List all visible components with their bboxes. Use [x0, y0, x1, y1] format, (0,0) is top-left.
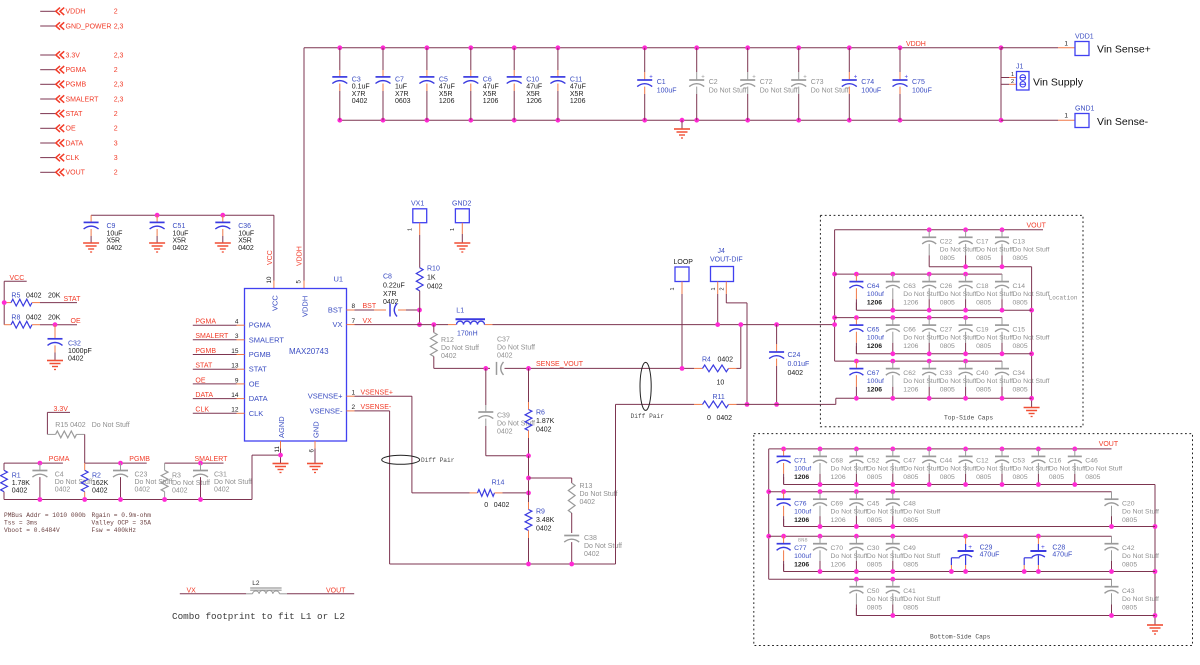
capacitor C44	[922, 447, 977, 487]
svg-text:0402: 0402	[494, 502, 510, 509]
wire GND right bus bottom block	[1153, 485, 1158, 626]
svg-text:C76: C76	[794, 501, 807, 508]
svg-text:47uF: 47uF	[570, 84, 586, 91]
svg-text:STAT: STAT	[66, 111, 84, 118]
svg-text:1: 1	[1064, 40, 1068, 47]
svg-text:Do Not Stuff: Do Not Stuff	[903, 596, 940, 603]
svg-text:1.78K: 1.78K	[12, 480, 31, 487]
ground AGND	[273, 464, 289, 473]
svg-text:Vin Sense+: Vin Sense+	[1097, 44, 1151, 56]
node VCC-R5 junction	[2, 300, 7, 305]
svg-text:0402: 0402	[536, 526, 552, 533]
capacitor C62	[886, 359, 941, 401]
svg-text:0805: 0805	[903, 517, 918, 524]
svg-text:C30: C30	[867, 545, 880, 552]
svg-text:8: 8	[352, 303, 356, 310]
diff pair ellipse right	[631, 362, 665, 420]
svg-text:1uF: 1uF	[395, 84, 407, 91]
svg-text:Combo footprint to fit L1 or L: Combo footprint to fit L1 or L2	[172, 611, 345, 622]
wire U1 pin 12 CLK	[193, 407, 245, 414]
svg-text:C73: C73	[811, 79, 824, 86]
svg-text:C20: C20	[1122, 501, 1135, 508]
svg-text:100uf: 100uf	[794, 553, 811, 560]
svg-text:0: 0	[484, 502, 488, 509]
svg-text:0805: 0805	[940, 474, 955, 481]
svg-text:0402: 0402	[718, 357, 734, 364]
svg-text:C37: C37	[497, 337, 510, 344]
svg-text:Do Not Stuff: Do Not Stuff	[903, 334, 940, 341]
off-page connector OE	[40, 125, 118, 133]
svg-text:C13: C13	[1013, 239, 1026, 246]
connector J1 Vin Supply	[1001, 64, 1084, 91]
wire R13 tap	[526, 456, 572, 493]
capacitor C75	[893, 45, 932, 122]
wire VDDH bottom rail	[338, 119, 1001, 121]
svg-text:1: 1	[352, 389, 356, 396]
svg-text:1206: 1206	[439, 98, 455, 105]
capacitor C51	[150, 213, 189, 252]
node Vin+ junction	[999, 45, 1004, 50]
svg-text:C49: C49	[903, 545, 916, 552]
svg-text:PMBus Addr = 1010 000b: PMBus Addr = 1010 000b	[4, 512, 86, 519]
svg-text:Location: Location	[1049, 295, 1078, 302]
svg-text:C6: C6	[483, 77, 492, 84]
svg-text:VSENSE-: VSENSE-	[310, 406, 343, 415]
svg-text:PGMB: PGMB	[195, 348, 216, 355]
resistor R1	[1, 463, 31, 499]
svg-text:0805: 0805	[867, 605, 882, 612]
svg-text:C19: C19	[976, 326, 989, 333]
ground GND pin	[307, 464, 323, 473]
svg-text:OE: OE	[66, 126, 76, 133]
svg-text:GND1: GND1	[1075, 106, 1095, 113]
capacitor C63	[886, 272, 941, 313]
wire VSENSE+	[347, 389, 412, 493]
wire row4 rails top block	[835, 361, 1032, 404]
capacitor C71	[777, 447, 812, 485]
svg-text:Do Not Stuff: Do Not Stuff	[940, 334, 977, 341]
svg-text:C69: C69	[831, 501, 844, 508]
svg-text:Diff Pair: Diff Pair	[631, 413, 665, 420]
wire VOUT-DIF minus	[616, 403, 836, 405]
net label VX L2	[187, 587, 197, 594]
svg-text:+: +	[968, 544, 972, 551]
svg-text:0805: 0805	[1049, 474, 1064, 481]
svg-text:VDD1: VDD1	[1075, 34, 1094, 41]
wire AGND pin 11	[274, 441, 283, 464]
ground GND2	[454, 243, 470, 252]
ground VDDH rail	[674, 118, 690, 138]
svg-text:0805: 0805	[1013, 343, 1028, 350]
svg-text:+: +	[1041, 544, 1045, 551]
svg-text:C16: C16	[1049, 458, 1062, 465]
annotation Top-Side Caps	[944, 415, 993, 422]
wire row1 rails top block	[835, 230, 1043, 267]
svg-text:15: 15	[231, 348, 239, 355]
svg-text:C17: C17	[976, 239, 989, 246]
svg-text:VCC: VCC	[271, 295, 280, 311]
svg-text:0805: 0805	[1013, 386, 1028, 393]
svg-text:PGMB: PGMB	[129, 456, 150, 463]
wire C39-R6 bottoms	[486, 453, 531, 458]
svg-text:GND_POWER: GND_POWER	[66, 23, 112, 30]
svg-text:Do Not Stuff: Do Not Stuff	[976, 466, 1013, 473]
svg-text:PGMA: PGMA	[49, 456, 70, 463]
svg-text:0805: 0805	[940, 299, 955, 306]
svg-text:0402: 0402	[68, 356, 84, 363]
svg-text:10uF: 10uF	[107, 230, 123, 237]
capacitor C27	[922, 315, 977, 356]
off-page connector VOUT	[40, 169, 118, 177]
svg-text:Do Not Stuff: Do Not Stuff	[940, 466, 977, 473]
svg-text:C8: C8	[383, 274, 392, 281]
svg-text:Fsw = 400kHz: Fsw = 400kHz	[92, 527, 137, 534]
svg-text:R4: R4	[702, 357, 711, 364]
capacitor C46	[1068, 447, 1123, 487]
svg-text:C50: C50	[867, 588, 880, 595]
resistor R9	[525, 493, 555, 564]
svg-text:C36: C36	[238, 223, 251, 230]
capacitor C70	[813, 534, 868, 574]
svg-text:C44: C44	[940, 458, 953, 465]
capacitor C48	[886, 489, 941, 529]
svg-text:X7R: X7R	[383, 291, 397, 298]
svg-text:Do Not Stuff: Do Not Stuff	[1013, 247, 1050, 254]
capacitor C9	[84, 215, 123, 252]
wire VDDH feed to U1 pin5	[296, 48, 305, 289]
svg-text:Do Not Stuff: Do Not Stuff	[940, 291, 977, 298]
capacitor C20	[1105, 492, 1160, 529]
svg-text:Do Not Stuff: Do Not Stuff	[976, 247, 1013, 254]
svg-text:Do Not Stuff: Do Not Stuff	[760, 88, 798, 95]
svg-text:0805: 0805	[1085, 474, 1100, 481]
svg-text:Do Not Stuff: Do Not Stuff	[903, 466, 940, 473]
wire VX	[347, 318, 449, 325]
svg-text:C32: C32	[68, 341, 81, 348]
svg-text:1206: 1206	[831, 562, 846, 569]
svg-text:C63: C63	[903, 283, 916, 290]
svg-text:0805: 0805	[1122, 562, 1137, 569]
svg-text:PGMA: PGMA	[195, 319, 216, 326]
svg-text:SENSE_VOUT: SENSE_VOUT	[536, 361, 584, 368]
svg-text:Vin Sense-: Vin Sense-	[1097, 116, 1149, 128]
svg-text:CLK: CLK	[195, 407, 209, 414]
svg-text:C70: C70	[831, 545, 844, 552]
svg-text:2: 2	[114, 9, 118, 16]
off-page connector DATA	[40, 139, 118, 147]
svg-text:J4: J4	[718, 248, 726, 255]
svg-text:2: 2	[114, 126, 118, 133]
svg-text:R6: R6	[536, 410, 545, 417]
svg-text:0402: 0402	[352, 98, 368, 105]
wire VSENSE-	[347, 404, 392, 564]
svg-text:C34: C34	[1013, 370, 1026, 377]
resistor R8	[4, 315, 77, 329]
svg-text:1: 1	[670, 287, 676, 290]
svg-text:0402: 0402	[536, 427, 552, 434]
svg-text:Diff Pair: Diff Pair	[421, 457, 455, 464]
svg-text:VOUT: VOUT	[1099, 441, 1119, 448]
svg-text:R13: R13	[580, 483, 593, 490]
svg-text:1000pF: 1000pF	[68, 348, 92, 355]
svg-text:C4: C4	[55, 472, 64, 479]
svg-text:AGND: AGND	[277, 416, 286, 438]
svg-text:1: 1	[450, 228, 456, 231]
svg-text:GND2: GND2	[452, 201, 472, 208]
svg-text:47uF: 47uF	[483, 84, 499, 91]
testpoint GND2	[450, 201, 472, 244]
wire VDDH top rail	[304, 47, 1001, 49]
capacitor C17	[959, 227, 1014, 269]
resistor R14	[412, 480, 531, 510]
connector J4 VOUT-DIF	[710, 248, 743, 291]
svg-text:1206: 1206	[483, 98, 499, 105]
svg-text:X7R: X7R	[352, 91, 366, 98]
svg-text:0402: 0402	[441, 353, 457, 360]
wire L2 left	[180, 593, 253, 595]
svg-text:100uf: 100uf	[867, 291, 884, 298]
svg-text:VSENSE-: VSENSE-	[361, 404, 392, 411]
svg-text:C42: C42	[1122, 545, 1135, 552]
svg-text:VX: VX	[187, 587, 197, 594]
svg-text:0805: 0805	[867, 474, 882, 481]
capacitor C73	[791, 45, 849, 122]
svg-text:X5R: X5R	[526, 91, 540, 98]
ground top block	[1024, 408, 1040, 417]
capacitor C30	[849, 534, 904, 574]
svg-text:0805: 0805	[903, 474, 918, 481]
svg-text:1206: 1206	[867, 343, 882, 350]
svg-text:5: 5	[296, 280, 303, 284]
svg-text:0402: 0402	[717, 415, 733, 422]
testpoint VX1	[408, 201, 427, 268]
net label VOUT bottom block	[1099, 441, 1119, 448]
capacitor C7	[376, 45, 411, 122]
capacitor C31	[193, 461, 252, 500]
capacitor C41	[886, 577, 941, 618]
svg-text:Do Not Stuff: Do Not Stuff	[940, 378, 977, 385]
wire row2 rails bottom block	[769, 492, 1155, 527]
svg-text:Vin Supply: Vin Supply	[1033, 77, 1084, 89]
svg-text:BST: BST	[363, 303, 377, 310]
resistor R6	[525, 368, 555, 455]
svg-text:SMALERT: SMALERT	[195, 333, 229, 340]
svg-text:470uF: 470uF	[980, 552, 1000, 559]
wire sense return bottom	[390, 404, 616, 566]
svg-text:0805: 0805	[976, 255, 991, 262]
svg-text:Vboot = 0.6484V: Vboot = 0.6484V	[4, 527, 60, 534]
svg-text:0402: 0402	[214, 487, 230, 494]
svg-text:10: 10	[717, 380, 725, 387]
svg-text:X5R: X5R	[173, 238, 187, 245]
svg-text:Do Not Stuff: Do Not Stuff	[1013, 378, 1050, 385]
capacitor C23	[113, 461, 173, 500]
svg-text:1206: 1206	[903, 343, 918, 350]
svg-text:C1: C1	[657, 79, 666, 86]
net label OE	[71, 318, 81, 325]
inductor L2	[250, 580, 281, 594]
svg-text:2,3: 2,3	[114, 52, 124, 59]
svg-text:C40: C40	[976, 370, 989, 377]
svg-text:3: 3	[114, 140, 118, 147]
svg-text:10uF: 10uF	[173, 230, 189, 237]
wire U1 pin 13 STAT	[193, 363, 245, 370]
node R6 top	[526, 366, 531, 371]
capacitor C53	[995, 447, 1050, 487]
svg-text:0402: 0402	[788, 370, 804, 377]
svg-text:DATA: DATA	[249, 394, 268, 403]
svg-text:0805: 0805	[940, 255, 955, 262]
net label VDDH	[906, 41, 926, 48]
wire to VDD1	[1001, 40, 1075, 48]
capacitor C50	[849, 577, 904, 616]
svg-text:Do Not Stuff: Do Not Stuff	[811, 88, 849, 95]
svg-text:10: 10	[266, 276, 273, 283]
svg-text:0402: 0402	[12, 488, 28, 495]
off-page connector VDDH	[40, 8, 118, 16]
svg-text:2: 2	[352, 404, 356, 411]
resistor R11	[694, 394, 737, 422]
off-page connector CLK	[40, 154, 118, 162]
node BST-VX1 junction	[417, 308, 422, 327]
svg-text:C26: C26	[940, 283, 953, 290]
svg-text:Do Not Stuff: Do Not Stuff	[867, 596, 904, 603]
svg-text:LOOP: LOOP	[674, 259, 694, 266]
svg-text:VX: VX	[332, 320, 342, 329]
svg-text:C51: C51	[173, 223, 186, 230]
capacitor C40	[959, 359, 1014, 401]
svg-text:VOUT: VOUT	[326, 587, 346, 594]
wire SMALERT segment	[165, 462, 224, 464]
wire VCC feed to U1 pin10	[266, 215, 274, 288]
svg-text:1206: 1206	[903, 299, 918, 306]
svg-text:1206: 1206	[526, 98, 542, 105]
svg-text:1: 1	[711, 287, 717, 290]
svg-text:STAT: STAT	[195, 363, 213, 370]
net label PGMA	[49, 456, 70, 463]
svg-text:1206: 1206	[794, 562, 809, 569]
svg-text:0805: 0805	[1013, 255, 1028, 262]
ground C51	[149, 243, 165, 252]
svg-text:13: 13	[231, 363, 239, 370]
capacitor C11	[550, 45, 585, 122]
inductor L1	[448, 308, 493, 338]
svg-text:1K: 1K	[427, 275, 436, 282]
svg-text:1: 1	[1011, 72, 1014, 78]
svg-text:Bottom-Side Caps: Bottom-Side Caps	[930, 634, 991, 641]
svg-text:C3: C3	[352, 77, 361, 84]
svg-text:C41: C41	[903, 588, 916, 595]
ground C32	[47, 361, 63, 370]
net label 3.3V	[47, 406, 70, 413]
svg-text:Do Not Stuff: Do Not Stuff	[867, 553, 904, 560]
svg-text:VX: VX	[363, 318, 373, 325]
svg-text:VOUT: VOUT	[66, 170, 86, 177]
net label VOUT top block	[1027, 223, 1047, 230]
svg-text:11: 11	[274, 446, 281, 453]
svg-text:C74: C74	[861, 79, 874, 86]
capacitor C68	[813, 447, 868, 487]
wire SENSE_VOUT left	[434, 367, 490, 369]
annotation PMBus settings	[4, 512, 151, 534]
capacitor C28	[1022, 534, 1072, 574]
svg-text:0402: 0402	[172, 488, 188, 495]
svg-text:VSENSE+: VSENSE+	[308, 392, 343, 401]
svg-text:1206: 1206	[570, 98, 586, 105]
svg-text:C7: C7	[395, 77, 404, 84]
wire VOUT line	[493, 324, 835, 326]
wire U1 pin 9 OE	[193, 377, 245, 384]
wire U1 pin 4 PGMA	[193, 319, 245, 326]
annotation Bottom-Side Caps	[930, 634, 991, 641]
wire U1 pin 14 DATA	[193, 392, 245, 399]
diff pair ellipse left	[382, 455, 455, 464]
off-page connector PGMB	[40, 81, 123, 89]
svg-text:R1: R1	[12, 473, 21, 480]
svg-text:C45: C45	[867, 501, 880, 508]
annotation Location	[1049, 295, 1078, 302]
testpoint GND1 Vin Sense-	[1075, 106, 1149, 129]
svg-text:C72: C72	[760, 79, 773, 86]
svg-text:C43: C43	[1122, 588, 1135, 595]
svg-text:C39: C39	[497, 413, 510, 420]
svg-text:C31: C31	[214, 472, 227, 479]
capacitor C14	[995, 274, 1050, 313]
wire SENSE_VOUT	[505, 367, 695, 369]
svg-text:C38: C38	[584, 535, 597, 542]
capacitor C6	[463, 45, 498, 122]
svg-text:0805: 0805	[903, 562, 918, 569]
net label SENSE_VOUT	[536, 361, 584, 368]
svg-text:100uf: 100uf	[794, 509, 811, 516]
svg-text:Rgain = 0.9m-ohm: Rgain = 0.9m-ohm	[92, 512, 152, 519]
svg-text:1206: 1206	[867, 299, 882, 306]
svg-text:3: 3	[235, 333, 239, 340]
capacitor C72	[740, 45, 798, 122]
svg-text:2: 2	[1011, 79, 1014, 85]
svg-text:0805: 0805	[867, 517, 882, 524]
svg-text:Do Not Stuff: Do Not Stuff	[976, 334, 1013, 341]
capacitor C24	[769, 322, 809, 407]
svg-text:2: 2	[720, 287, 726, 290]
ground C36	[215, 243, 231, 252]
svg-text:2,3: 2,3	[114, 82, 124, 89]
node Vin- junction	[999, 118, 1004, 123]
svg-text:1206: 1206	[831, 474, 846, 481]
svg-text:Do Not Stuff: Do Not Stuff	[1013, 291, 1050, 298]
net label SMALERT	[195, 456, 229, 463]
svg-text:0402: 0402	[584, 551, 600, 558]
testpoint VDD1 Vin Sense+	[1075, 34, 1151, 56]
svg-text:C62: C62	[903, 370, 916, 377]
svg-text:0402: 0402	[55, 487, 71, 494]
svg-text:0805: 0805	[867, 562, 882, 569]
svg-text:VDDH: VDDH	[66, 9, 86, 16]
svg-text:C29: C29	[980, 545, 993, 552]
wire row3 rails bottom block	[769, 536, 1155, 571]
svg-text:L1: L1	[456, 308, 464, 315]
wire row2 rails top block	[835, 274, 1032, 310]
svg-text:X5R: X5R	[570, 91, 584, 98]
capacitor C10	[507, 45, 542, 122]
svg-text:MAX20743: MAX20743	[289, 347, 329, 356]
svg-text:0805: 0805	[976, 343, 991, 350]
wire PGMB segment	[85, 462, 147, 464]
svg-text:C52: C52	[867, 458, 880, 465]
svg-text:8N8: 8N8	[798, 537, 808, 544]
svg-text:STAT: STAT	[64, 296, 82, 303]
svg-text:Do Not Stuff: Do Not Stuff	[1085, 466, 1122, 473]
